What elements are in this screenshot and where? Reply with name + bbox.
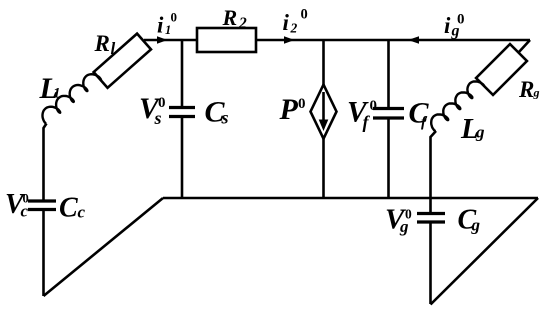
- wire: C_f branch upper segment: [387, 40, 390, 107]
- svg-text:1: 1: [53, 86, 61, 102]
- wire: L_g elbow to vertical: [431, 131, 437, 212]
- svg-text:f: f: [363, 112, 371, 132]
- capacitor C_c: [28, 201, 56, 210]
- label V_g^0: [385, 204, 412, 237]
- label L_1: [39, 72, 61, 105]
- svg-text:g: g: [475, 123, 485, 142]
- label C_g: [458, 205, 481, 236]
- capacitor C_s: [169, 108, 195, 117]
- svg-text:s: s: [221, 108, 229, 128]
- wire: L_1 elbow to left vertical: [44, 124, 47, 201]
- capacitor C_g: [417, 214, 445, 223]
- svg-text:R: R: [222, 5, 238, 30]
- label V_s^0: [139, 93, 166, 128]
- svg-text:l: l: [111, 39, 116, 58]
- current source P arrow: [319, 92, 329, 131]
- label L_g: [460, 113, 485, 145]
- label i_1^0: [157, 10, 177, 38]
- svg-text:0: 0: [405, 207, 412, 222]
- svg-text:C: C: [59, 193, 78, 224]
- label C_c: [59, 193, 86, 224]
- svg-text:P: P: [279, 93, 299, 126]
- svg-text:1: 1: [165, 23, 171, 37]
- wire: C_s branch lower segment: [181, 118, 184, 199]
- label P^0: [279, 93, 306, 126]
- current source P (diamond): [311, 85, 337, 139]
- inductor L_1: [43, 74, 102, 123]
- wire: P branch lower segment: [322, 137, 325, 199]
- wire: C_s branch upper segment: [181, 40, 184, 106]
- ground plane left diagonal: [44, 198, 164, 296]
- inductor L_g: [431, 81, 484, 131]
- svg-text:2: 2: [290, 21, 298, 36]
- svg-text:i: i: [444, 13, 451, 38]
- label R_2: [222, 5, 248, 32]
- ground plane horizontal edge: [163, 197, 538, 200]
- label C_s: [205, 96, 229, 129]
- svg-text:g: g: [533, 86, 540, 100]
- svg-text:s: s: [154, 108, 162, 128]
- svg-text:0: 0: [301, 7, 308, 23]
- wire: C_f branch lower segment: [387, 119, 390, 199]
- resistor R_g: [476, 44, 527, 95]
- label C_f: [409, 97, 430, 131]
- svg-text:R: R: [94, 31, 110, 56]
- svg-text:c: c: [78, 203, 86, 222]
- label V_c^0: [5, 189, 29, 221]
- label V_f^0: [347, 97, 377, 133]
- svg-text:C: C: [409, 97, 430, 130]
- wire: C_c lower segment: [42, 209, 45, 296]
- svg-text:i: i: [283, 10, 290, 35]
- svg-text:0: 0: [457, 12, 465, 28]
- resistor R_l: [94, 34, 151, 88]
- label R_g: [518, 77, 540, 102]
- arrow i_1: [157, 36, 168, 43]
- capacitor C_f: [373, 109, 404, 119]
- svg-text:0: 0: [370, 98, 378, 114]
- arrow i_g: [408, 36, 419, 43]
- ground plane right diagonal: [431, 198, 539, 305]
- wire: P branch upper segment: [322, 40, 325, 86]
- label R_l: [94, 31, 116, 58]
- wire: top horizontal bus: [144, 39, 530, 42]
- svg-text:R: R: [518, 77, 534, 102]
- wire: C_g lower segment to ground vertex: [429, 223, 432, 304]
- label i_2^0: [283, 7, 308, 36]
- wire: R_g to top bus stub: [519, 40, 531, 53]
- arrow i_2: [284, 36, 295, 43]
- svg-text:0: 0: [158, 95, 166, 111]
- svg-text:0: 0: [23, 192, 29, 206]
- label i_g^0: [444, 12, 465, 40]
- resistor R_2: [197, 28, 256, 52]
- svg-text:0: 0: [171, 10, 178, 25]
- svg-text:i: i: [157, 13, 164, 38]
- svg-text:2: 2: [238, 15, 247, 32]
- svg-text:g: g: [471, 216, 481, 235]
- svg-text:0: 0: [298, 96, 306, 112]
